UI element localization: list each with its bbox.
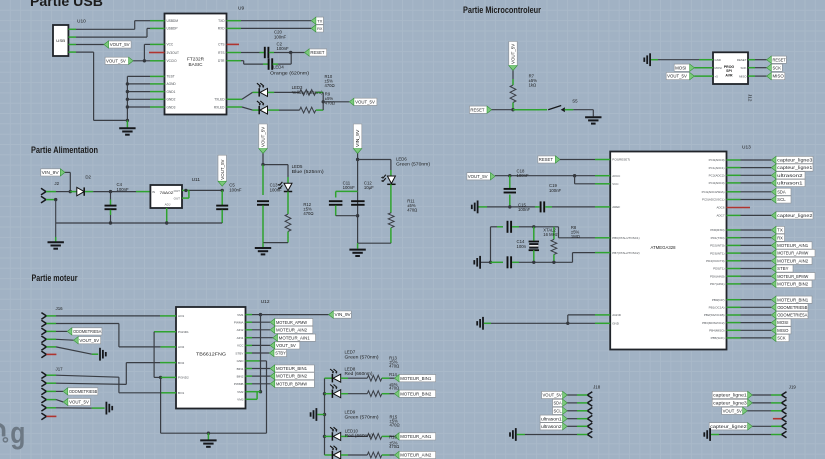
svg-text:PD5(T1): PD5(T1) (713, 267, 724, 271)
svg-text:100nF: 100nF (117, 187, 130, 192)
svg-text:PD2(INT0): PD2(INT0) (710, 244, 724, 248)
svg-text:VIN_9V: VIN_9V (335, 312, 351, 317)
svg-text:PC3(ADC3): PC3(ADC3) (709, 181, 725, 185)
svg-text:Partie Alimentation: Partie Alimentation (31, 145, 98, 155)
svg-text:RXD: RXD (218, 27, 225, 31)
svg-text:ODOMETRIE5A: ODOMETRIE5A (73, 329, 101, 334)
svg-text:PD0(RXD): PD0(RXD) (710, 228, 724, 232)
svg-text:MOSI: MOSI (675, 65, 686, 70)
svg-text:VM3: VM3 (237, 398, 244, 402)
svg-text:AVR: AVR (725, 74, 733, 78)
svg-text:PB2(SS/OC1B): PB2(SS/OC1B) (704, 313, 725, 317)
svg-text:J17: J17 (56, 367, 64, 372)
svg-text:R16: R16 (389, 435, 397, 440)
svg-text:AO1: AO1 (178, 314, 184, 318)
svg-text:78A02: 78A02 (160, 190, 175, 195)
svg-text:LED6: LED6 (396, 156, 407, 161)
svg-text:470Ω: 470Ω (325, 83, 335, 88)
svg-text:IN: IN (152, 190, 155, 194)
svg-text:capteur_ligne2: capteur_ligne2 (710, 424, 748, 429)
svg-text:TX: TX (777, 228, 783, 233)
svg-text:R14: R14 (389, 372, 397, 377)
svg-text:SPI: SPI (726, 69, 732, 73)
svg-text:PC1(ADC1): PC1(ADC1) (709, 166, 725, 170)
svg-text:GND: GND (715, 58, 721, 62)
svg-text:PC6(RESET): PC6(RESET) (612, 158, 630, 162)
svg-text:Orange (620nm): Orange (620nm) (270, 71, 310, 76)
svg-text:100nF: 100nF (518, 207, 531, 212)
svg-text:VOUT_5V: VOUT_5V (79, 338, 99, 343)
svg-text:J19: J19 (789, 385, 797, 390)
svg-text:J16: J16 (56, 306, 64, 311)
svg-text:MOTEUR_AIN1: MOTEUR_AIN1 (777, 243, 809, 248)
svg-text:AGND: AGND (167, 82, 177, 86)
svg-text:PB4(MISO): PB4(MISO) (709, 329, 724, 333)
svg-text:J12: J12 (748, 94, 753, 102)
svg-text:VCC: VCC (612, 182, 619, 186)
svg-text:MOTEUR_AIN1: MOTEUR_AIN1 (400, 434, 432, 439)
svg-text:PD6(AIN0): PD6(AIN0) (710, 274, 725, 278)
svg-text:100nF: 100nF (343, 185, 356, 190)
svg-text:PC0(ADC0): PC0(ADC0) (709, 158, 725, 162)
svg-text:TX: TX (317, 18, 323, 23)
svg-text:100nF: 100nF (229, 187, 242, 192)
svg-text:U11: U11 (192, 177, 201, 183)
svg-text:VOUT_5V: VOUT_5V (468, 174, 488, 179)
svg-text:USB: USB (56, 38, 65, 43)
svg-text:470Ω: 470Ω (389, 444, 399, 449)
svg-text:RESET: RESET (773, 57, 787, 62)
svg-text:capteur_ligne2: capteur_ligne2 (777, 213, 813, 218)
svg-text:470Ω: 470Ω (407, 207, 417, 212)
svg-text:CTS: CTS (218, 43, 224, 47)
svg-text:PC4(ADC4/SDA): PC4(ADC4/SDA) (702, 190, 725, 194)
svg-text:AO2: AO2 (178, 345, 184, 349)
svg-text:D2: D2 (85, 175, 91, 180)
svg-text:ADC6: ADC6 (716, 206, 724, 210)
svg-text:PC2(ADC2): PC2(ADC2) (709, 174, 725, 178)
svg-text:SCL: SCL (554, 408, 563, 413)
svg-text:MISO: MISO (777, 328, 789, 333)
svg-text:PGND2: PGND2 (178, 376, 189, 380)
svg-text:U9: U9 (238, 6, 244, 12)
svg-text:PD4(XCK/T0): PD4(XCK/T0) (706, 259, 724, 263)
svg-text:MISO: MISO (739, 74, 747, 78)
svg-text:TXD: TXD (218, 19, 225, 23)
svg-text:VOUT_5V: VOUT_5V (511, 44, 516, 64)
svg-text:AVCC: AVCC (612, 174, 621, 178)
svg-text:Green (570nm): Green (570nm) (345, 355, 380, 360)
svg-text:PB7(XTAL2/TOSC2): PB7(XTAL2/TOSC2) (612, 251, 639, 255)
svg-text:MISO: MISO (773, 74, 785, 79)
svg-text:BASIC: BASIC (189, 62, 204, 67)
svg-text:U13: U13 (742, 145, 751, 151)
svg-text:100n: 100n (517, 244, 527, 249)
svg-text:capteur_ligne3: capteur_ligne3 (713, 401, 748, 406)
svg-text:PROG: PROG (724, 65, 735, 69)
svg-text:capteur_ligne1: capteur_ligne1 (777, 165, 813, 170)
svg-text:ADC7: ADC7 (716, 214, 724, 218)
svg-text:Partie moteur: Partie moteur (32, 273, 78, 283)
svg-text:VOUT_5V: VOUT_5V (110, 42, 130, 47)
svg-text:RESET: RESET (310, 50, 325, 55)
svg-text:GND: GND (237, 359, 245, 363)
svg-text:VOUT_5V: VOUT_5V (69, 400, 89, 405)
svg-text:VOUT_5V: VOUT_5V (723, 408, 742, 413)
svg-text:1kΩ: 1kΩ (529, 82, 537, 87)
svg-text:TXLED: TXLED (214, 98, 225, 102)
svg-text:MOTEUR_APMW: MOTEUR_APMW (276, 320, 307, 325)
svg-text:VM1: VM1 (237, 313, 244, 317)
svg-text:MOTEUR_AIN2: MOTEUR_AIN2 (276, 327, 308, 332)
svg-text:U12: U12 (261, 299, 270, 305)
svg-text:VOUT_5V: VOUT_5V (667, 74, 687, 79)
svg-text:PB0(ICP): PB0(ICP) (712, 298, 725, 302)
svg-text:ultrason2: ultrason2 (777, 173, 803, 178)
svg-text:BIN1: BIN1 (237, 367, 244, 371)
svg-text:470Ω: 470Ω (325, 100, 335, 105)
svg-text:MOTEUR_AIN1: MOTEUR_AIN1 (279, 335, 311, 340)
svg-text:470Ω: 470Ω (389, 386, 399, 391)
svg-text:MOTEUR_BIN2: MOTEUR_BIN2 (400, 391, 432, 396)
svg-text:VOUT_5V: VOUT_5V (220, 159, 225, 179)
svg-text:100nF: 100nF (517, 173, 530, 178)
svg-text:3V3OUT: 3V3OUT (167, 51, 179, 55)
svg-text:SCK: SCK (777, 336, 786, 341)
svg-text:U10: U10 (77, 19, 86, 25)
svg-text:RX: RX (317, 26, 323, 31)
svg-text:MOTEUR_BPMW: MOTEUR_BPMW (777, 274, 808, 279)
svg-text:VIN_9V: VIN_9V (355, 130, 360, 147)
svg-text:BIN2: BIN2 (237, 374, 244, 378)
svg-text:DTR: DTR (218, 59, 225, 63)
svg-text:470Ω: 470Ω (390, 423, 400, 428)
svg-text:RESET: RESET (737, 58, 747, 62)
svg-text:VCC: VCC (167, 43, 174, 47)
svg-text:OUT: OUT (174, 189, 181, 193)
svg-text:Red (660nm): Red (660nm) (345, 433, 374, 438)
svg-text:ultrason2: ultrason2 (541, 424, 562, 429)
svg-text:SDA: SDA (777, 189, 786, 194)
svg-text:MOTEUR_AIN2: MOTEUR_AIN2 (777, 258, 809, 263)
svg-text:Partie USB: Partie USB (30, 0, 103, 9)
svg-text:ADJ: ADJ (165, 203, 171, 207)
svg-text:AGND: AGND (612, 313, 622, 317)
svg-text:BO2: BO2 (178, 361, 184, 365)
svg-text:VOUT_5V: VOUT_5V (261, 127, 266, 147)
svg-text:Partie Microcontroleur: Partie Microcontroleur (463, 5, 541, 15)
svg-text:capteur_ligne3: capteur_ligne3 (777, 158, 813, 163)
svg-text:PGND1: PGND1 (178, 330, 189, 334)
svg-text:SDA: SDA (554, 401, 562, 406)
svg-text:PWMB: PWMB (234, 382, 244, 386)
svg-text:PD3(INT1): PD3(INT1) (710, 251, 724, 255)
svg-text:+5: +5 (715, 74, 719, 78)
svg-text:RXLED: RXLED (214, 105, 225, 109)
svg-text:AREF: AREF (612, 205, 620, 209)
svg-text:470Ω: 470Ω (389, 364, 399, 369)
svg-text:PB5(SCK): PB5(SCK) (711, 336, 725, 340)
svg-text:ODOMETRIE5B: ODOMETRIE5B (777, 305, 807, 310)
svg-text:16 MHz: 16 MHz (543, 232, 557, 237)
svg-text:PB3(MOSI/OC2): PB3(MOSI/OC2) (702, 321, 724, 325)
svg-text:STBY: STBY (235, 351, 243, 355)
svg-text:J18: J18 (593, 385, 601, 390)
svg-text:Red (660nm): Red (660nm) (345, 371, 374, 376)
svg-text:ODOMETRIE5A: ODOMETRIE5A (777, 313, 807, 318)
svg-text:1MΩ: 1MΩ (571, 234, 580, 239)
svg-text:VCC: VCC (237, 344, 244, 348)
svg-text:ultrason1: ultrason1 (541, 416, 562, 421)
svg-text:BO1: BO1 (178, 391, 184, 395)
svg-text:STBY: STBY (275, 351, 286, 356)
svg-text:LED5: LED5 (292, 164, 303, 169)
svg-text:PD7(AIN1): PD7(AIN1) (710, 282, 725, 286)
svg-text:Green (570nm): Green (570nm) (396, 162, 431, 167)
svg-text:VOUT_5V: VOUT_5V (276, 343, 296, 348)
svg-text:TB6612FNG: TB6612FNG (196, 351, 227, 356)
svg-text:RTS: RTS (218, 51, 224, 55)
svg-text:MOTEUR_BPMW: MOTEUR_BPMW (276, 381, 307, 386)
svg-text:LED9: LED9 (345, 409, 356, 414)
svg-text:RX: RX (777, 235, 783, 240)
svg-text:GND3: GND3 (167, 105, 176, 109)
svg-text:LED4: LED4 (273, 65, 284, 70)
svg-text:J2: J2 (54, 181, 59, 186)
svg-text:PWMA: PWMA (234, 321, 245, 325)
svg-text:ultrason1: ultrason1 (777, 181, 803, 186)
svg-text:Green (570nm): Green (570nm) (345, 415, 380, 420)
svg-text:STBY: STBY (777, 266, 789, 271)
svg-text:ODOMETRIE5B: ODOMETRIE5B (69, 389, 97, 394)
svg-text:TEST: TEST (167, 75, 175, 79)
svg-text:MOTEUR_AIN2: MOTEUR_AIN2 (400, 453, 432, 458)
svg-text:MOTEUR_BIN1: MOTEUR_BIN1 (777, 297, 809, 302)
svg-text:MOSI: MOSI (715, 66, 723, 70)
svg-text:PC5(ADC5/SCL): PC5(ADC5/SCL) (702, 198, 725, 202)
svg-text:Blue (525nm): Blue (525nm) (292, 169, 325, 174)
svg-text:OUT: OUT (174, 197, 181, 201)
svg-text:VOUT_5V: VOUT_5V (543, 393, 562, 398)
svg-text:Yellow (595nm): Yellow (595nm) (292, 90, 324, 95)
svg-text:100nF: 100nF (549, 188, 562, 193)
svg-text:MOTEUR_APMW: MOTEUR_APMW (777, 251, 808, 256)
svg-text:capteur_ligne1: capteur_ligne1 (713, 393, 748, 398)
svg-text:100nF: 100nF (274, 34, 287, 39)
svg-text:MOTEUR_BIN2: MOTEUR_BIN2 (777, 282, 809, 287)
svg-text:10µF: 10µF (364, 185, 374, 190)
svg-text:g: g (10, 415, 25, 449)
svg-text:VCCIO: VCCIO (167, 59, 178, 63)
svg-text:GND: GND (612, 322, 620, 326)
svg-text:VOUT_5V: VOUT_5V (355, 99, 375, 104)
svg-text:VM2: VM2 (237, 390, 244, 394)
svg-text:MOTEUR_BIN1: MOTEUR_BIN1 (276, 366, 308, 371)
svg-text:GND1: GND1 (167, 90, 176, 94)
svg-text:SCL: SCL (777, 197, 786, 202)
svg-text:100nF: 100nF (277, 46, 290, 51)
svg-text:USBDP: USBDP (167, 27, 178, 31)
svg-text:SCK: SCK (773, 65, 782, 70)
svg-text:MOTEUR_BIN2: MOTEUR_BIN2 (276, 374, 308, 379)
svg-text:AIN2: AIN2 (237, 328, 244, 332)
svg-text:GND2: GND2 (167, 98, 176, 102)
svg-text:FT232R: FT232R (187, 57, 205, 62)
svg-text:VIN_9V: VIN_9V (42, 170, 59, 175)
svg-text:PB1(OC1A): PB1(OC1A) (709, 306, 725, 310)
svg-text:100nF: 100nF (270, 187, 283, 192)
svg-text:ATMEGA328: ATMEGA328 (651, 245, 676, 250)
svg-text:SCK: SCK (741, 66, 747, 70)
svg-text:VOUT_5V: VOUT_5V (106, 58, 126, 63)
svg-text:PD1(TXD): PD1(TXD) (711, 236, 725, 240)
svg-text:RESET: RESET (539, 157, 554, 162)
svg-text:470Ω: 470Ω (303, 211, 313, 216)
svg-text:USBDM: USBDM (167, 19, 179, 23)
svg-text:RESET: RESET (470, 107, 485, 112)
svg-text:MOSI: MOSI (777, 320, 788, 325)
svg-text:MOTEUR_BIN1: MOTEUR_BIN1 (400, 376, 432, 381)
svg-text:PB6(XTAL1/TOSC1): PB6(XTAL1/TOSC1) (612, 236, 639, 240)
svg-text:LED7: LED7 (345, 349, 356, 354)
svg-text:AIN1: AIN1 (237, 336, 244, 340)
svg-text:S5: S5 (572, 98, 578, 103)
